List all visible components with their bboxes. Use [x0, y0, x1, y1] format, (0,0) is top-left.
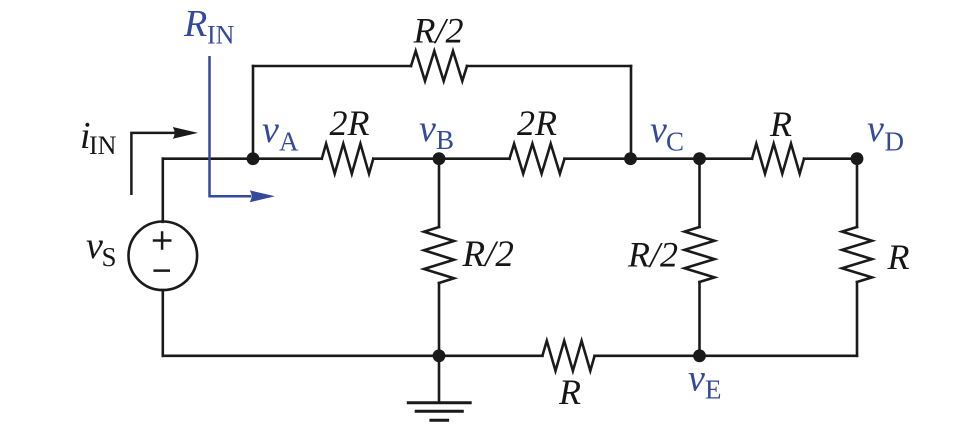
- voltage source vS circle: [129, 222, 198, 291]
- svg-text:R: R: [769, 104, 792, 144]
- svg-text:2R: 2R: [517, 103, 557, 143]
- wire node D down to R: [856, 159, 859, 227]
- resistor R/2 (node C vertical): [685, 227, 715, 282]
- wire R/2 down to ground node: [438, 283, 441, 356]
- svg-text:R: R: [183, 3, 207, 45]
- resistor 2R (B-C): [510, 144, 565, 174]
- resistor R (bottom rail): [542, 341, 594, 371]
- wire node A up to top branch: [252, 66, 255, 159]
- svg-text:S: S: [102, 242, 117, 272]
- svg-text:B: B: [436, 125, 454, 155]
- top branch right wire: [467, 65, 631, 68]
- svg-text:v: v: [867, 108, 884, 150]
- node C: [693, 152, 706, 165]
- svg-text:v: v: [688, 358, 705, 400]
- bottom rail left segment: [163, 354, 543, 357]
- voltage source minus sign: [153, 269, 170, 272]
- resistor R/2 (top branch): [411, 51, 467, 81]
- node E: [693, 349, 706, 362]
- bottom rail right segment: [595, 354, 857, 357]
- resistor 2R (A-B): [322, 144, 374, 174]
- wire left branch down to source circle: [162, 159, 165, 222]
- ground symbol: [407, 403, 472, 421]
- svg-text:IN: IN: [89, 131, 117, 160]
- svg-text:D: D: [885, 127, 905, 157]
- wire main left from source top to 2R#1: [163, 157, 322, 160]
- svg-text:v: v: [86, 225, 103, 267]
- svg-text:R/2: R/2: [462, 234, 514, 275]
- node C junction (top branch): [624, 152, 637, 165]
- ground stem: [438, 356, 441, 403]
- svg-text:v: v: [419, 108, 436, 150]
- resistor R (node D vertical): [842, 227, 872, 282]
- wire R down to bottom rail: [856, 282, 859, 356]
- iIN arrow: [131, 133, 174, 195]
- svg-text:R: R: [887, 237, 910, 277]
- voltage source plus sign: [153, 231, 172, 250]
- resistor R/2 (node B vertical): [424, 227, 454, 283]
- node A: [247, 152, 260, 165]
- svg-text:C: C: [666, 127, 684, 157]
- svg-text:R/2: R/2: [627, 235, 678, 275]
- svg-text:2R: 2R: [330, 103, 370, 143]
- svg-text:E: E: [705, 375, 722, 405]
- RIN arrow (blue): [210, 56, 252, 196]
- top branch left wire: [253, 65, 411, 68]
- svg-text:IN: IN: [207, 21, 235, 50]
- node B: [433, 152, 446, 165]
- wire node C down to R/2: [698, 159, 701, 227]
- svg-text:v: v: [650, 109, 667, 151]
- wire top branch down to node C: [630, 66, 633, 159]
- svg-text:R/2: R/2: [413, 11, 464, 51]
- resistor R (C-D): [752, 144, 804, 174]
- wire node B down to R/2: [438, 159, 441, 227]
- svg-text:v: v: [262, 109, 279, 151]
- svg-text:R: R: [558, 372, 581, 412]
- wire node C to resistor R: [565, 157, 753, 160]
- ground node: [433, 349, 446, 362]
- node D: [851, 152, 864, 165]
- wire R/2 down to node E: [698, 282, 701, 356]
- wire between 2R#1 and node B to 2R#2: [373, 157, 509, 160]
- wire source bottom to bottom rail: [162, 290, 165, 356]
- wire resistor R to node D: [804, 157, 857, 160]
- svg-text:A: A: [279, 127, 299, 157]
